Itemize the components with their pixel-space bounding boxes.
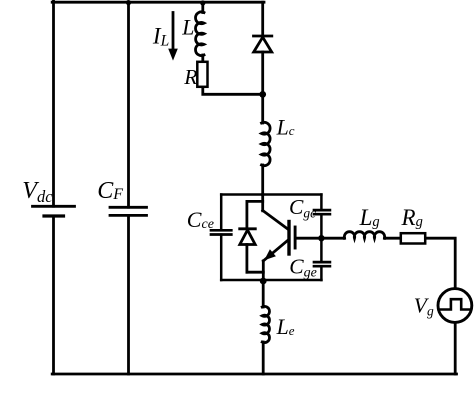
svg-text:R: R xyxy=(183,65,197,89)
svg-text:Le: Le xyxy=(276,315,295,339)
svg-text:Rg: Rg xyxy=(401,205,423,230)
svg-text:Lc: Lc xyxy=(276,115,295,139)
svg-text:IL: IL xyxy=(152,24,169,50)
svg-text:Vg: Vg xyxy=(414,294,434,319)
svg-text:Cge: Cge xyxy=(289,254,317,280)
svg-text:Lg: Lg xyxy=(359,205,380,230)
svg-text:Cce: Cce xyxy=(187,207,214,232)
svg-text:CF: CF xyxy=(97,178,123,204)
svg-text:L: L xyxy=(181,16,194,40)
svg-text:Cgc: Cgc xyxy=(289,195,316,221)
svg-text:Vdc: Vdc xyxy=(22,178,53,206)
